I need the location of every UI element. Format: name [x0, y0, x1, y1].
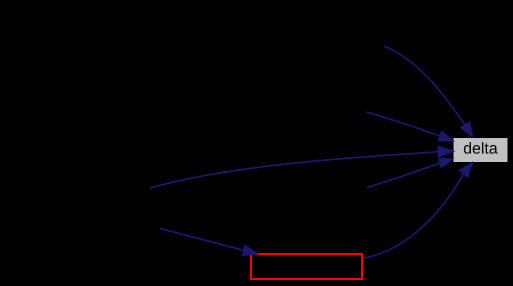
wire: edge 2 line from hidden node to delta upper-left	[366, 112, 454, 141]
wire: edge 4 line from hidden node to delta lower-left	[367, 158, 454, 187]
node delta (gray filled box)	[454, 138, 508, 162]
wire: edge 5 curve from red node right edge up to delta bottom	[363, 162, 473, 258]
node: red-bordered box (truncated node)	[251, 254, 362, 279]
wire: edge 6 line from hidden node to red node	[160, 229, 258, 256]
wire: edge 3 long gentle curve from hidden node to delta left	[150, 146, 454, 188]
wire: edge 1 curve from hidden node to delta top	[384, 46, 473, 137]
